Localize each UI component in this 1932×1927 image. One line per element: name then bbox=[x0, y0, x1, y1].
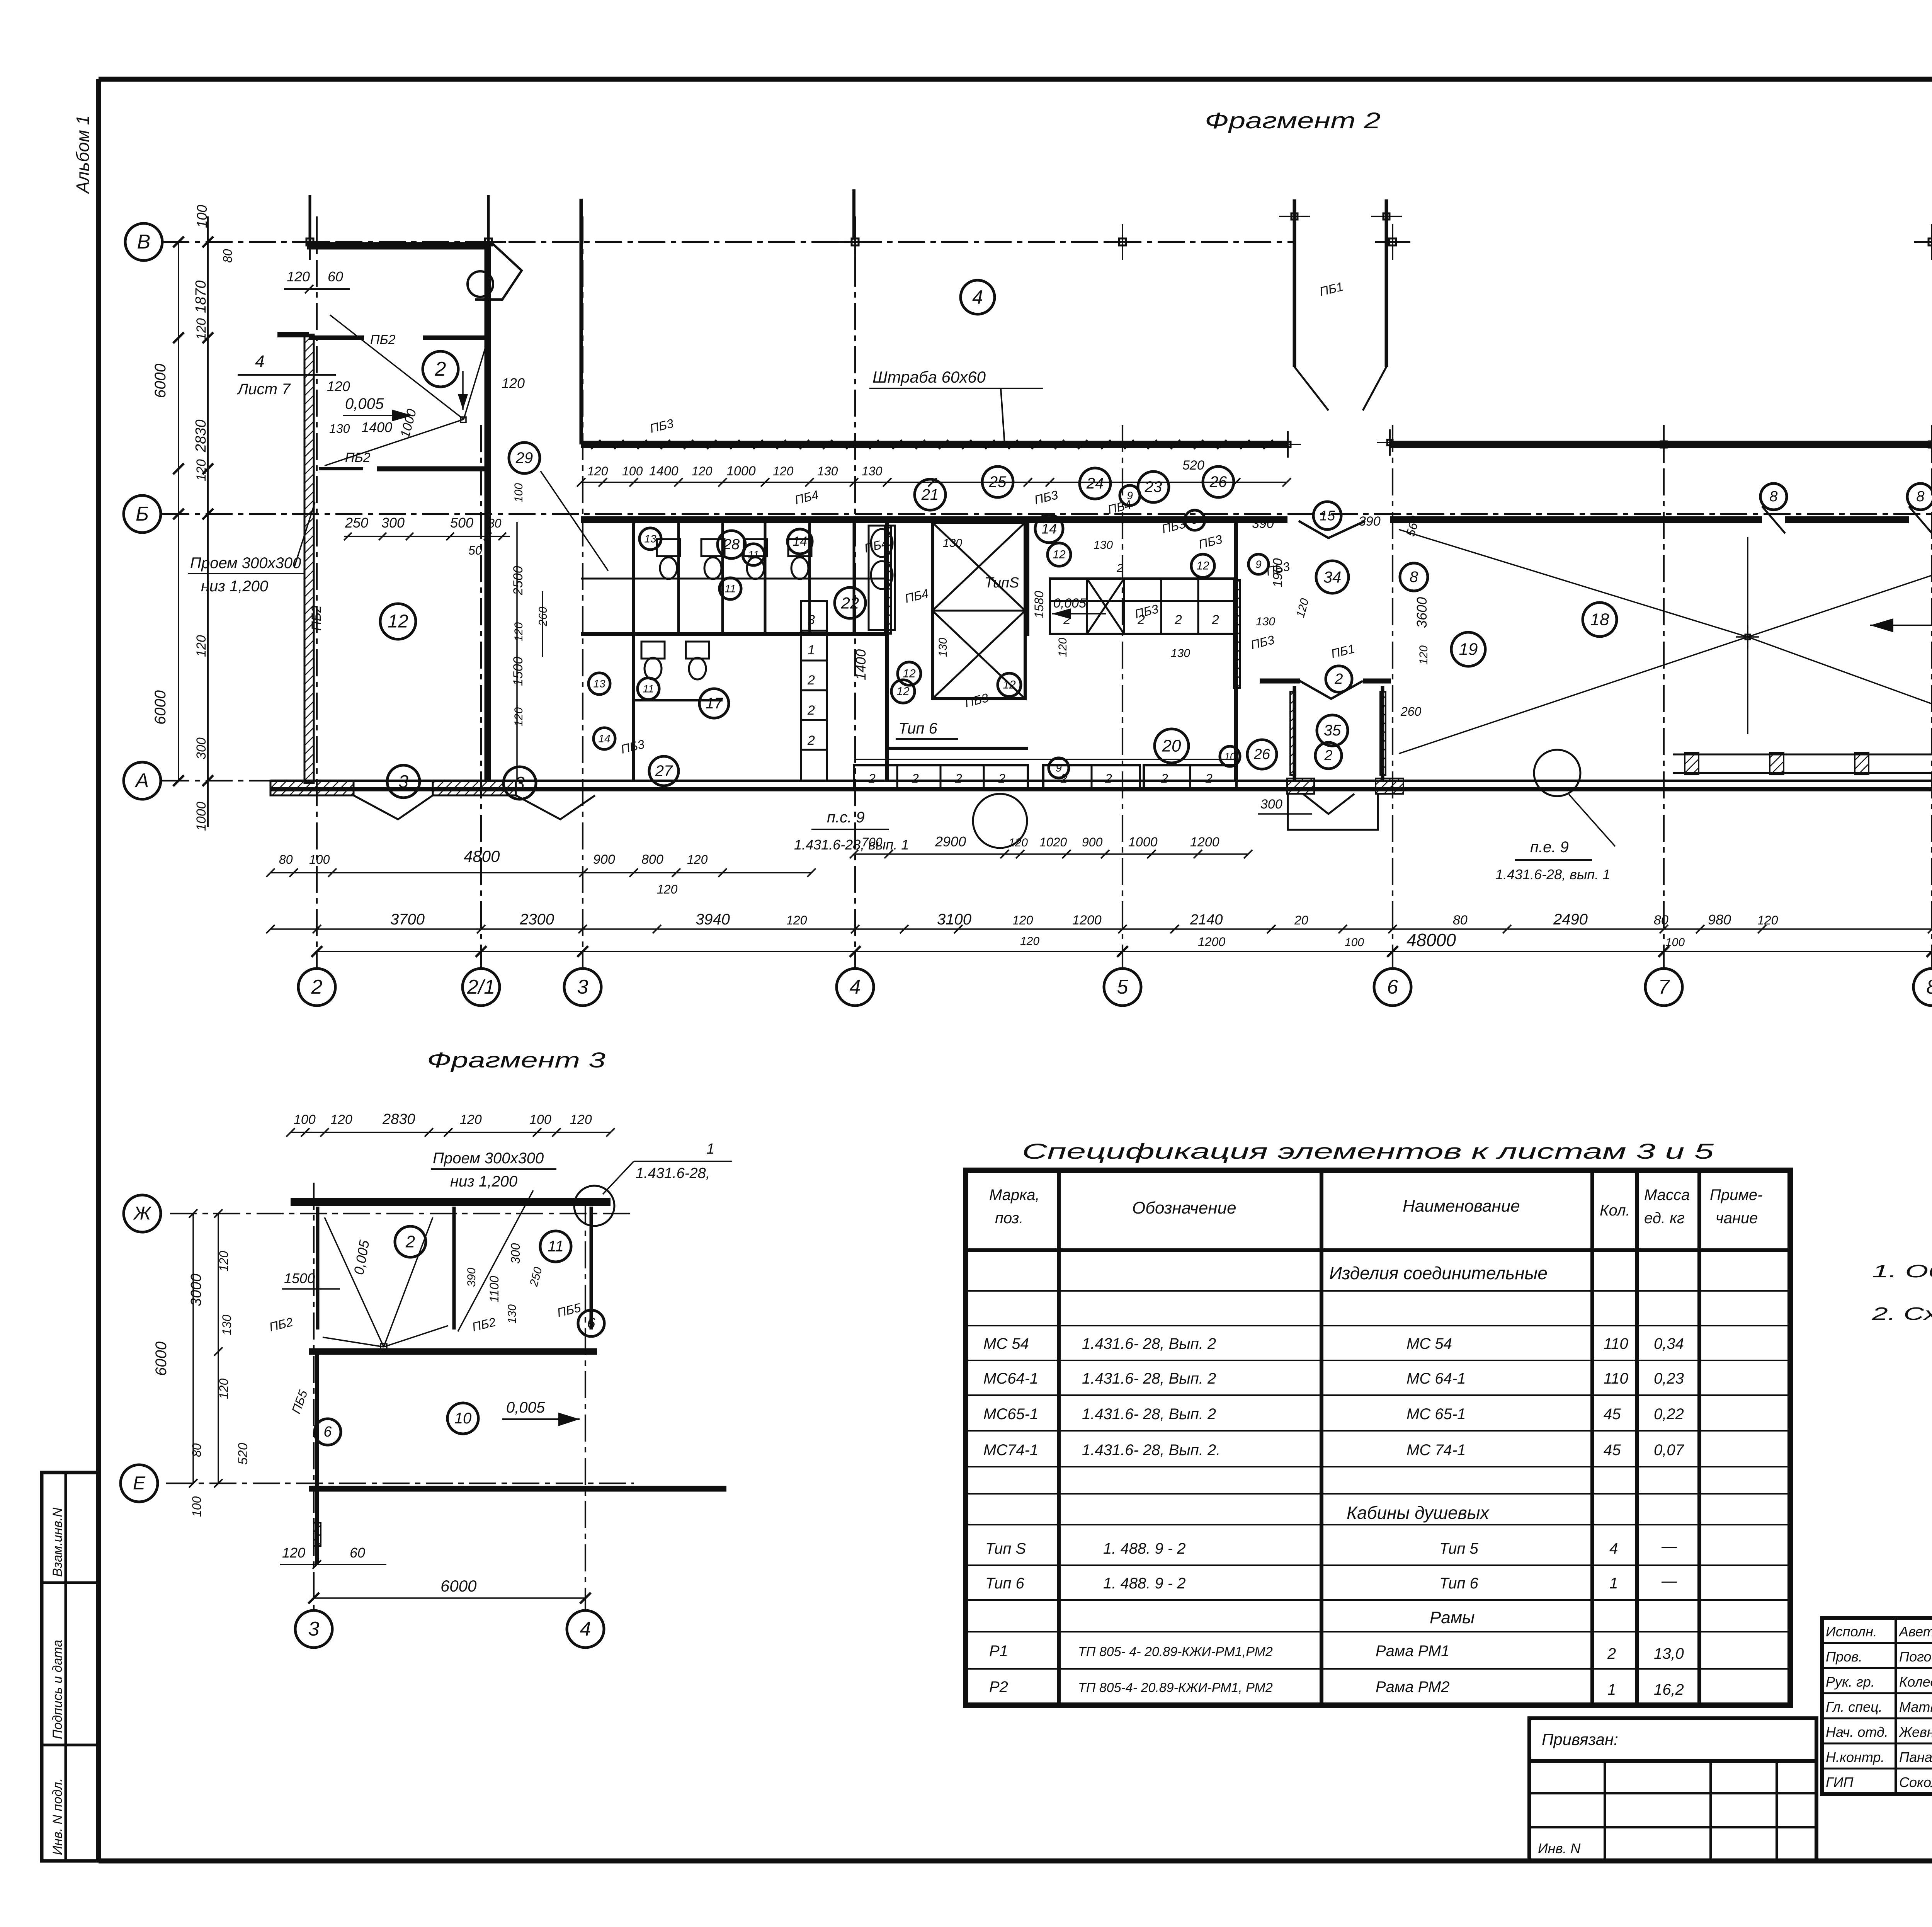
svg-text:10: 10 bbox=[454, 1410, 472, 1427]
svg-text:20: 20 bbox=[1294, 913, 1308, 927]
svg-text:120: 120 bbox=[692, 464, 713, 478]
svg-text:1.431.6-28,: 1.431.6-28, bbox=[636, 1165, 710, 1181]
svg-text:130: 130 bbox=[862, 464, 883, 478]
svg-text:3940: 3940 bbox=[696, 911, 730, 928]
bottom-left mini grid bbox=[1529, 1761, 1816, 1861]
svg-text:80: 80 bbox=[279, 853, 293, 866]
fragment3 ref label 1.431 bbox=[603, 1141, 732, 1194]
fragment3 axis E wall bbox=[309, 1486, 726, 1492]
tambour walls below axis A bbox=[1258, 686, 1403, 830]
spec table section izdeliya bbox=[1329, 1263, 1548, 1283]
wall stubs above building bbox=[310, 189, 854, 444]
svg-text:3700: 3700 bbox=[390, 911, 425, 928]
label 4 / List 7 bbox=[236, 352, 336, 398]
svg-text:120: 120 bbox=[194, 459, 209, 481]
basins room 21 bbox=[869, 526, 895, 630]
spec table rows MC bbox=[983, 1335, 1685, 1459]
svg-text:1100: 1100 bbox=[487, 1276, 501, 1302]
svg-text:120: 120 bbox=[512, 622, 525, 642]
svg-text:Пров.: Пров. bbox=[1826, 1649, 1862, 1665]
fragment3 room circles bbox=[315, 1226, 604, 1445]
svg-text:17: 17 bbox=[706, 695, 723, 712]
svg-text:МС65-1: МС65-1 bbox=[983, 1406, 1038, 1423]
svg-text:120: 120 bbox=[786, 913, 807, 927]
svg-text:29: 29 bbox=[515, 449, 533, 466]
svg-text:2: 2 bbox=[912, 771, 919, 785]
svg-text:ГИП: ГИП bbox=[1826, 1774, 1854, 1790]
svg-text:ед. кг: ед. кг bbox=[1644, 1210, 1685, 1227]
svg-text:120: 120 bbox=[282, 1545, 305, 1561]
svg-text:120: 120 bbox=[1417, 645, 1430, 665]
svg-text:2: 2 bbox=[1105, 771, 1112, 785]
margin stamp boxes bbox=[42, 1472, 99, 1861]
labels PB in washrooms bbox=[619, 279, 1356, 756]
svg-text:6000: 6000 bbox=[440, 1577, 477, 1595]
svg-text:13: 13 bbox=[593, 678, 605, 690]
svg-text:4: 4 bbox=[972, 286, 983, 308]
slope label 0,005 left bbox=[343, 395, 413, 421]
svg-text:390: 390 bbox=[1252, 516, 1274, 531]
svg-text:22: 22 bbox=[841, 594, 859, 612]
svg-text:МС 54: МС 54 bbox=[983, 1335, 1029, 1352]
svg-text:50: 50 bbox=[468, 543, 482, 557]
svg-text:3600: 3600 bbox=[1414, 597, 1430, 628]
svg-text:Тип 5: Тип 5 bbox=[1439, 1540, 1478, 1557]
room circles right bbox=[1451, 561, 1932, 666]
svg-text:23: 23 bbox=[1145, 478, 1162, 495]
svg-text:2: 2 bbox=[807, 673, 815, 688]
svg-text:100: 100 bbox=[529, 1112, 551, 1127]
svg-text:Колединцева: Колединцева bbox=[1899, 1674, 1932, 1690]
svg-text:130: 130 bbox=[220, 1314, 234, 1335]
svg-text:100: 100 bbox=[190, 1496, 204, 1517]
svg-text:0,34: 0,34 bbox=[1654, 1335, 1684, 1352]
entrance break peak at axis B bbox=[1299, 521, 1365, 538]
svg-text:Подпись и дата: Подпись и дата bbox=[50, 1640, 65, 1739]
svg-text:110: 110 bbox=[1604, 1370, 1628, 1387]
room circles middle bbox=[509, 443, 1428, 786]
svg-text:130: 130 bbox=[329, 422, 350, 436]
svg-text:МС 64-1: МС 64-1 bbox=[1406, 1370, 1466, 1387]
svg-text:15: 15 bbox=[1320, 508, 1335, 524]
label pe 9 with big circle right bbox=[1495, 750, 1615, 882]
svg-text:10: 10 bbox=[1225, 751, 1236, 762]
svg-text:21: 21 bbox=[921, 486, 939, 503]
svg-text:120: 120 bbox=[194, 635, 209, 657]
svg-text:1500: 1500 bbox=[511, 657, 526, 686]
svg-text:3: 3 bbox=[577, 976, 588, 998]
svg-text:Тип 6: Тип 6 bbox=[985, 1575, 1024, 1592]
dim rows below plan bbox=[266, 813, 1932, 949]
fragment3 detail circle top right bbox=[574, 1186, 614, 1226]
svg-text:чание: чание bbox=[1716, 1210, 1758, 1227]
spec table rows R bbox=[989, 1643, 1684, 1698]
svg-text:100: 100 bbox=[1665, 936, 1685, 949]
axis A bottom wall bbox=[270, 781, 1932, 789]
svg-text:1000: 1000 bbox=[1128, 835, 1158, 849]
svg-text:3000: 3000 bbox=[188, 1273, 204, 1306]
svg-text:Проем 300x300: Проем 300x300 bbox=[190, 555, 301, 572]
svg-text:980: 980 bbox=[1708, 912, 1731, 928]
svg-text:5: 5 bbox=[1117, 976, 1129, 998]
svg-text:11: 11 bbox=[548, 1238, 564, 1255]
svg-text:120: 120 bbox=[1012, 913, 1033, 927]
svg-text:В: В bbox=[137, 231, 151, 253]
svg-text:Исполн.: Исполн. bbox=[1826, 1624, 1877, 1639]
svg-text:МС64-1: МС64-1 bbox=[983, 1370, 1038, 1387]
big circle 4 label bbox=[961, 280, 995, 314]
svg-text:700: 700 bbox=[862, 835, 883, 849]
svg-text:35: 35 bbox=[1324, 722, 1341, 739]
axis line B bbox=[124, 495, 1932, 533]
svg-text:1000: 1000 bbox=[194, 802, 209, 831]
fragment3 top dims bbox=[286, 1111, 615, 1137]
bench rows bottom with 2 labels bbox=[854, 765, 1236, 789]
toilet fixtures bbox=[641, 539, 811, 679]
fragment3 small dims room 11 bbox=[465, 1243, 545, 1324]
circles 8 on axis B wall bbox=[1760, 483, 1932, 546]
svg-text:Инв. N: Инв. N bbox=[1538, 1840, 1581, 1856]
column crosses on axis V bbox=[292, 224, 1932, 260]
svg-text:МС 74-1: МС 74-1 bbox=[1406, 1442, 1466, 1459]
personnel table rows bbox=[1826, 1621, 1932, 1790]
svg-text:1. 488. 9 - 2: 1. 488. 9 - 2 bbox=[1103, 1575, 1185, 1592]
svg-text:Масса: Масса bbox=[1644, 1187, 1690, 1204]
svg-text:12: 12 bbox=[1196, 560, 1209, 572]
spec table section ramy bbox=[1430, 1608, 1475, 1627]
svg-text:4: 4 bbox=[1609, 1540, 1618, 1557]
svg-text:45: 45 bbox=[1604, 1442, 1621, 1459]
svg-text:520: 520 bbox=[1182, 458, 1204, 473]
svg-text:8: 8 bbox=[1916, 489, 1924, 505]
wall between rooms 34 and 35 bbox=[1260, 681, 1391, 699]
svg-text:100: 100 bbox=[1345, 936, 1364, 949]
svg-text:1500: 1500 bbox=[284, 1270, 315, 1286]
svg-text:2: 2 bbox=[311, 976, 323, 998]
svg-text:2: 2 bbox=[998, 771, 1005, 785]
room circle 2 bbox=[423, 351, 458, 387]
svg-text:ПБ2: ПБ2 bbox=[309, 605, 324, 631]
fragment3 dim 1500 bbox=[282, 1270, 340, 1289]
svg-text:6: 6 bbox=[1387, 976, 1398, 998]
svg-text:Гл. спец.: Гл. спец. bbox=[1826, 1699, 1883, 1715]
title Fragment 2 bbox=[1205, 108, 1381, 133]
svg-text:МС74-1: МС74-1 bbox=[983, 1442, 1038, 1459]
locker column room 22 bbox=[801, 601, 827, 781]
svg-text:низ 1,200: низ 1,200 bbox=[201, 578, 268, 595]
svg-text:1. 488. 9 - 2: 1. 488. 9 - 2 bbox=[1103, 1540, 1185, 1557]
svg-text:4800: 4800 bbox=[464, 847, 500, 865]
svg-text:—: — bbox=[1661, 1538, 1677, 1555]
svg-text:Рама РМ2: Рама РМ2 bbox=[1376, 1678, 1450, 1695]
middle section top wall (axis B/1) bbox=[581, 441, 1932, 448]
svg-text:1.431.6- 28, Вып. 2: 1.431.6- 28, Вып. 2 bbox=[1082, 1406, 1216, 1423]
dimension baseline 48000 bbox=[311, 930, 1932, 957]
svg-text:1. Общие указания см. ли: 1. Общие указания см. лист 3. bbox=[1872, 1261, 1932, 1281]
svg-text:16,2: 16,2 bbox=[1654, 1681, 1684, 1698]
svg-text:12: 12 bbox=[896, 685, 910, 698]
svg-text:300: 300 bbox=[1260, 797, 1282, 812]
svg-text:110: 110 bbox=[1604, 1335, 1628, 1352]
svg-text:А: А bbox=[134, 769, 149, 792]
svg-text:Жевнеров: Жевнеров bbox=[1898, 1724, 1932, 1740]
section circles 3 below axis A bbox=[387, 765, 536, 799]
svg-text:2900: 2900 bbox=[935, 834, 966, 849]
svg-text:1200: 1200 bbox=[1190, 835, 1219, 849]
svg-text:2140: 2140 bbox=[1190, 912, 1223, 928]
svg-text:26: 26 bbox=[1253, 746, 1270, 763]
washroom partition grid bbox=[581, 523, 1240, 781]
label PB2 top bbox=[370, 332, 396, 347]
svg-text:120: 120 bbox=[502, 375, 525, 391]
svg-text:24: 24 bbox=[1086, 475, 1104, 492]
svg-text:100: 100 bbox=[512, 483, 525, 502]
svg-text:Марка,: Марка, bbox=[989, 1187, 1040, 1204]
spec table section kabiny bbox=[1347, 1503, 1490, 1523]
svg-text:2: 2 bbox=[1211, 613, 1219, 627]
fragment3 lower wall of room 2 bbox=[309, 1348, 597, 1355]
label Proem 300x300 bbox=[188, 502, 315, 595]
svg-text:48000: 48000 bbox=[1406, 930, 1456, 950]
svg-text:120: 120 bbox=[512, 707, 525, 727]
svg-text:120: 120 bbox=[287, 269, 310, 284]
fragment3 axis verticals 3 and 4 bbox=[295, 1183, 604, 1648]
vertical axis lines 2..10 bbox=[317, 216, 1932, 969]
svg-text:9: 9 bbox=[1255, 558, 1262, 570]
svg-text:0,22: 0,22 bbox=[1654, 1406, 1684, 1423]
svg-text:2: 2 bbox=[1116, 562, 1123, 575]
svg-text:120: 120 bbox=[1056, 638, 1069, 657]
svg-text:2: 2 bbox=[1174, 613, 1182, 627]
fragment3 axis Zh bbox=[124, 1195, 634, 1232]
label PB2 low bbox=[309, 605, 324, 631]
svg-text:1400: 1400 bbox=[361, 419, 392, 435]
misc small dims middle bbox=[937, 514, 1430, 812]
svg-text:Нач. отд.: Нач. отд. bbox=[1826, 1724, 1888, 1740]
svg-text:45: 45 bbox=[1604, 1406, 1621, 1423]
svg-text:6000: 6000 bbox=[152, 364, 169, 398]
room circle 12 bbox=[380, 604, 416, 639]
svg-text:7: 7 bbox=[1658, 976, 1670, 998]
svg-text:13,0: 13,0 bbox=[1654, 1645, 1684, 1662]
svg-text:12: 12 bbox=[903, 667, 916, 680]
svg-text:Спецификация элементов к л: Спецификация элементов к листам 3 и 5 bbox=[1022, 1139, 1714, 1163]
svg-text:900: 900 bbox=[593, 852, 615, 867]
svg-text:12: 12 bbox=[1053, 548, 1066, 561]
spec table title bbox=[1022, 1139, 1714, 1163]
svg-text:2: 2 bbox=[807, 703, 815, 718]
spec table grid bbox=[966, 1170, 1790, 1705]
svg-text:120: 120 bbox=[217, 1251, 231, 1272]
svg-text:Обозначение: Обозначение bbox=[1132, 1198, 1236, 1217]
svg-text:14: 14 bbox=[598, 733, 610, 745]
svg-text:80: 80 bbox=[221, 249, 235, 263]
svg-text:Штраба 60x60: Штраба 60x60 bbox=[872, 368, 986, 386]
svg-text:100: 100 bbox=[309, 853, 330, 866]
axis bottom circles 2..10 bbox=[298, 969, 1932, 1006]
svg-text:Альбом 1: Альбом 1 bbox=[73, 115, 93, 194]
svg-text:поз.: поз. bbox=[995, 1210, 1024, 1227]
svg-text:120: 120 bbox=[570, 1112, 592, 1127]
svg-text:130: 130 bbox=[1094, 539, 1113, 552]
svg-text:2500: 2500 bbox=[511, 566, 526, 596]
svg-text:2: 2 bbox=[1607, 1645, 1616, 1662]
svg-text:2: 2 bbox=[1161, 771, 1168, 785]
svg-text:120: 120 bbox=[1020, 935, 1039, 948]
svg-text:1200: 1200 bbox=[1198, 935, 1225, 949]
left section top wall bbox=[307, 242, 491, 250]
axis line A bbox=[124, 762, 1932, 799]
svg-text:Наименование: Наименование bbox=[1403, 1197, 1520, 1215]
svg-text:1: 1 bbox=[1609, 1575, 1618, 1592]
privyazan box bbox=[1529, 1718, 1816, 1761]
svg-text:Привязан:: Привязан: bbox=[1542, 1730, 1618, 1748]
svg-text:120: 120 bbox=[1757, 913, 1778, 927]
svg-text:1200: 1200 bbox=[1072, 913, 1102, 928]
svg-text:100: 100 bbox=[294, 1112, 316, 1127]
fragment3 proem label bbox=[431, 1150, 556, 1331]
svg-text:Б: Б bbox=[136, 503, 149, 525]
svg-text:120: 120 bbox=[194, 318, 209, 340]
svg-text:60: 60 bbox=[328, 269, 343, 284]
label PB2 mid bbox=[345, 450, 371, 465]
svg-text:130: 130 bbox=[817, 464, 838, 478]
note 1 bbox=[1872, 1261, 1932, 1281]
svg-text:1: 1 bbox=[706, 1141, 714, 1157]
svg-text:6000: 6000 bbox=[152, 690, 169, 725]
svg-text:130: 130 bbox=[1171, 647, 1190, 660]
fragment3 room diagonals bbox=[323, 1217, 448, 1350]
column crosses on axis B/1 wall bbox=[1648, 429, 1932, 460]
svg-text:Панащенко: Панащенко bbox=[1899, 1749, 1932, 1765]
svg-text:300: 300 bbox=[381, 515, 405, 531]
svg-text:28: 28 bbox=[723, 536, 740, 553]
margin label Album 1 bbox=[73, 115, 93, 194]
svg-text:130: 130 bbox=[937, 638, 949, 657]
svg-text:Матвеев: Матвеев bbox=[1899, 1699, 1932, 1715]
fragment3 top wall bbox=[291, 1198, 611, 1206]
svg-text:2: 2 bbox=[1063, 613, 1071, 627]
svg-text:Ж: Ж bbox=[133, 1204, 152, 1224]
left section west wall hatched bbox=[304, 335, 314, 783]
fragment3 bottom dims bbox=[280, 1545, 591, 1604]
svg-text:1: 1 bbox=[1607, 1681, 1616, 1698]
slope arrow 0,005 room 19 bbox=[1870, 604, 1932, 632]
svg-text:ПБ2: ПБ2 bbox=[345, 450, 371, 465]
shtraba label top bbox=[869, 368, 1043, 444]
svg-text:34: 34 bbox=[1323, 568, 1342, 586]
spec table rows tip bbox=[985, 1538, 1677, 1592]
room 19 floor slope diagonals bbox=[1399, 529, 1932, 754]
svg-text:11: 11 bbox=[748, 549, 759, 561]
svg-text:Лист 7: Лист 7 bbox=[236, 381, 291, 398]
svg-text:2: 2 bbox=[405, 1232, 415, 1251]
svg-text:9: 9 bbox=[1056, 762, 1062, 774]
svg-text:11: 11 bbox=[643, 683, 654, 695]
svg-text:260: 260 bbox=[1400, 705, 1422, 718]
svg-text:1: 1 bbox=[808, 643, 815, 657]
svg-text:130: 130 bbox=[506, 1304, 519, 1324]
left section east wall bbox=[485, 242, 491, 781]
svg-text:Р1: Р1 bbox=[989, 1643, 1008, 1660]
svg-text:80: 80 bbox=[1453, 913, 1468, 928]
svg-text:120: 120 bbox=[460, 1112, 482, 1127]
svg-text:2: 2 bbox=[807, 733, 815, 748]
label Tip 6 bbox=[896, 720, 958, 739]
svg-text:100: 100 bbox=[622, 464, 643, 478]
svg-text:800: 800 bbox=[641, 852, 663, 867]
fragment3 slope 0,005 rotated bbox=[351, 1239, 372, 1276]
svg-text:130: 130 bbox=[943, 537, 962, 550]
upper dim row middle section bbox=[577, 458, 1291, 487]
svg-text:14: 14 bbox=[1041, 521, 1057, 537]
svg-text:2: 2 bbox=[955, 771, 962, 785]
svg-text:2490: 2490 bbox=[1553, 911, 1588, 928]
svg-text:300: 300 bbox=[194, 737, 209, 759]
svg-text:низ 1,200: низ 1,200 bbox=[450, 1173, 517, 1190]
note 2 bbox=[1871, 1304, 1932, 1324]
svg-text:Тип S: Тип S bbox=[985, 1540, 1026, 1557]
svg-text:Н.контр.: Н.контр. bbox=[1826, 1749, 1884, 1765]
svg-text:Проем 300x300: Проем 300x300 bbox=[433, 1150, 544, 1167]
svg-text:2: 2 bbox=[435, 358, 446, 380]
svg-text:2. Схему расположения щитов: 2. Схему расположения щитов уборной см. … bbox=[1871, 1304, 1932, 1324]
svg-text:14: 14 bbox=[793, 534, 807, 549]
svg-text:2830: 2830 bbox=[382, 1111, 415, 1127]
svg-text:4: 4 bbox=[255, 352, 264, 371]
svg-text:Изделия соединительные: Изделия соединительные bbox=[1329, 1263, 1548, 1283]
svg-text:1.431.6- 28, Вып. 2: 1.431.6- 28, Вып. 2 bbox=[1082, 1335, 1216, 1352]
svg-text:п.е. 9: п.е. 9 bbox=[1530, 839, 1569, 856]
bottom wall hatched blocks left bbox=[270, 781, 595, 819]
svg-text:13: 13 bbox=[644, 533, 656, 545]
svg-text:2: 2 bbox=[1324, 747, 1332, 764]
svg-text:—: — bbox=[1661, 1573, 1677, 1590]
svg-text:6: 6 bbox=[323, 1424, 332, 1440]
svg-text:1400: 1400 bbox=[649, 464, 679, 478]
axis line V bbox=[125, 223, 1294, 260]
svg-text:Фрагмент 3: Фрагмент 3 bbox=[427, 1048, 605, 1072]
svg-text:100: 100 bbox=[194, 205, 210, 228]
svg-text:250: 250 bbox=[345, 515, 368, 531]
svg-text:Взам.инв.N: Взам.инв.N bbox=[50, 1507, 65, 1577]
fragment3 slope 0,005 room10 bbox=[502, 1399, 580, 1426]
svg-text:120: 120 bbox=[1009, 836, 1028, 849]
svg-text:120: 120 bbox=[657, 882, 678, 896]
svg-text:80: 80 bbox=[488, 516, 502, 530]
svg-text:Р2: Р2 bbox=[989, 1678, 1008, 1695]
svg-text:Погосян: Погосян bbox=[1899, 1649, 1932, 1665]
bench row bay 3-6 with posts bbox=[854, 753, 1932, 775]
svg-text:11: 11 bbox=[724, 583, 736, 595]
svg-text:Соколовский: Соколовский bbox=[1899, 1774, 1932, 1790]
left dim column bbox=[152, 205, 235, 831]
svg-text:8: 8 bbox=[1410, 569, 1418, 586]
svg-text:19: 19 bbox=[1459, 640, 1478, 659]
svg-text:ТипS: ТипS bbox=[985, 575, 1019, 591]
svg-text:Рама РМ1: Рама РМ1 bbox=[1376, 1643, 1450, 1660]
fragment3 axis E bbox=[121, 1465, 634, 1502]
svg-text:390: 390 bbox=[465, 1268, 478, 1287]
svg-text:0,23: 0,23 bbox=[1654, 1370, 1684, 1387]
svg-text:120: 120 bbox=[327, 378, 350, 394]
svg-text:1.431.6- 28, Вып. 2.: 1.431.6- 28, Вып. 2. bbox=[1082, 1442, 1220, 1459]
svg-text:120: 120 bbox=[587, 464, 608, 478]
svg-text:3: 3 bbox=[808, 613, 815, 627]
label ps 9 with big circle left bbox=[794, 794, 1027, 853]
svg-text:1900: 1900 bbox=[1270, 558, 1285, 587]
svg-text:1400: 1400 bbox=[853, 649, 869, 680]
